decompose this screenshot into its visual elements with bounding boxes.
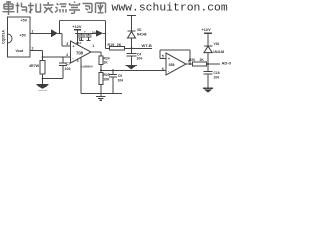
svg-text:V16: V16 <box>214 42 220 46</box>
junction dots <box>131 47 133 49</box>
svg-text:2: 2 <box>32 47 34 51</box>
svg-text:C5: C5 <box>118 74 122 78</box>
svg-text:1K: 1K <box>104 61 109 65</box>
svg-text:C7: C7 <box>66 62 71 66</box>
svg-text:Vout: Vout <box>16 49 25 53</box>
wire junction down to C16 <box>204 64 213 88</box>
svg-text:708: 708 <box>76 50 84 55</box>
resistor R24 <box>99 56 103 64</box>
char 1 dan <box>3 1 15 15</box>
svg-text:1: 1 <box>32 29 34 33</box>
sensor box U1 <box>8 17 31 57</box>
pin stub 2 (Vout) <box>30 49 43 51</box>
svg-text:4: 4 <box>77 59 79 63</box>
wire R1 to ground <box>42 74 44 85</box>
diode V16 triangle <box>204 46 212 52</box>
wire R24 to rail <box>100 64 102 72</box>
char 2 pian <box>16 3 27 14</box>
svg-text:VD: VD <box>137 28 142 32</box>
wire node to -in <box>43 56 71 58</box>
svg-text:2: 2 <box>66 53 68 57</box>
svg-text:AD-0: AD-0 <box>222 61 232 66</box>
char 8 wang <box>96 3 106 13</box>
arrow 2 <box>96 30 103 37</box>
ground under C16 bar <box>203 87 213 89</box>
svg-text:C16: C16 <box>214 71 220 75</box>
diode V16 <box>204 33 212 64</box>
ground under rail (3 bars) <box>100 94 102 97</box>
diode VD5 triangle <box>128 32 136 38</box>
svg-text:5: 5 <box>162 55 164 59</box>
ground triangle under C16 <box>204 89 212 92</box>
arrow 1 <box>51 29 58 37</box>
ground under C4 bar <box>126 64 138 66</box>
wire +12V down to R19 <box>106 33 110 48</box>
svg-text:+12V: +12V <box>202 27 212 32</box>
capacitor C8 104 <box>78 33 85 40</box>
diode VD5 <box>128 16 136 49</box>
arrow2 link <box>93 32 106 34</box>
op-amp U2B triangle <box>166 53 186 75</box>
svg-text:+5V: +5V <box>21 19 28 23</box>
svg-text:4R7W: 4R7W <box>29 64 40 68</box>
diode VD5 power bar <box>127 15 136 17</box>
watermark chinese characters (approximated strokes) <box>3 1 106 15</box>
svg-text:3: 3 <box>66 42 68 46</box>
ground earth under R1 <box>36 84 49 89</box>
svg-text:1: 1 <box>92 44 94 48</box>
svg-text:+12V: +12V <box>72 24 82 29</box>
filled shapes <box>36 29 212 92</box>
op-amp U2A triangle <box>71 41 92 63</box>
sensor notch arc <box>8 34 12 43</box>
pin stub 1 (+5V) <box>30 32 51 34</box>
svg-text:2K: 2K <box>200 58 205 62</box>
resistor R19 <box>110 46 125 50</box>
svg-text:8: 8 <box>79 38 81 42</box>
capacitor C7 branch <box>43 57 68 78</box>
opamp output <box>91 52 101 56</box>
svg-text:N4148: N4148 <box>137 32 147 36</box>
ground triangle under C4 <box>127 66 137 70</box>
svg-text:1N4148: 1N4148 <box>213 50 224 54</box>
char 6 xue <box>69 2 80 14</box>
opamp V+ drop <box>77 30 79 45</box>
resistor R1 4R7W <box>40 61 45 75</box>
component labels <box>1 19 231 83</box>
svg-text:104: 104 <box>214 75 220 79</box>
svg-text:104: 104 <box>118 78 124 82</box>
svg-text:LM2904: LM2904 <box>82 64 93 68</box>
wire R20 to AD-0 <box>207 63 221 65</box>
svg-text:+5V: +5V <box>20 34 27 38</box>
svg-text:R20: R20 <box>189 58 195 62</box>
wire arrow1 tip to bend <box>58 33 71 46</box>
svg-text:10u: 10u <box>92 30 97 34</box>
svg-text:www.schuitron.com: www.schuitron.com <box>112 3 228 15</box>
char 3 ji <box>28 3 41 14</box>
+12V power bar right <box>204 32 212 34</box>
char 7 xi <box>83 4 93 13</box>
capacitor C9 10u <box>86 33 92 40</box>
svg-text:104: 104 <box>137 57 143 61</box>
svg-text:358: 358 <box>169 63 175 67</box>
wire fb to R20 <box>190 63 193 65</box>
+12V rail <box>75 32 93 34</box>
capacitor C5 <box>109 70 117 93</box>
svg-text:20K: 20K <box>104 78 111 82</box>
capacitor C4 <box>127 48 137 65</box>
svg-text:CQ051A: CQ051A <box>1 30 5 44</box>
ground under R1 (earth blob) <box>38 89 47 91</box>
wire vout down to R1 <box>42 50 44 60</box>
char 4 jiao <box>43 2 54 13</box>
top routing wire <box>60 21 106 34</box>
resistor R20 <box>193 62 207 66</box>
wire R25 down <box>100 85 102 94</box>
svg-text:104: 104 <box>65 67 71 71</box>
char 5 liu <box>55 4 67 13</box>
wire R19 to WT-B <box>125 47 153 49</box>
+12V power bar left <box>74 29 81 31</box>
resistor R25 <box>99 72 103 84</box>
opamp V- down wire <box>81 58 122 94</box>
feedback loop <box>160 50 190 64</box>
svg-text:R19: R19 <box>108 43 115 47</box>
svg-text:+: + <box>84 30 86 34</box>
svg-text:R25: R25 <box>104 73 110 77</box>
svg-text:6: 6 <box>162 67 164 71</box>
svg-text:2K: 2K <box>117 43 122 47</box>
svg-text:WT-B: WT-B <box>142 43 152 48</box>
divider rail to comparator <box>101 69 166 71</box>
